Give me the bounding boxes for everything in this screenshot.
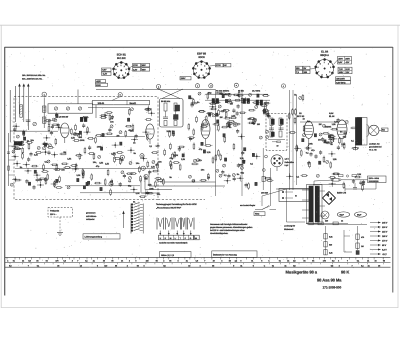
tube V1a FM triode side view [61,123,70,138]
transformer winding stubs left [302,189,309,191]
svg-text:10,7: 10,7 [268,115,271,118]
svg-text:1: 1 [324,61,325,64]
svg-text:2: 2 [204,64,205,67]
svg-text:8: 8 [195,68,196,71]
page scan edge bottom [1,307,398,309]
fuse row components group [329,173,366,192]
svg-text:220 V –: 220 V – [50,213,57,216]
tube socket U1 ECH 81 top view [113,61,131,78]
svg-text:98 Asa 98 Ma: 98 Asa 98 Ma [317,277,342,282]
IF can core pair 2 [243,99,246,104]
node D terminal circle [209,84,213,88]
audio preamp components group [237,93,274,189]
svg-text:100-320: 100-320 [261,192,269,195]
svg-text:5Ω: 5Ω [382,129,385,132]
svg-text:5: 5 [122,74,123,77]
svg-text:Ansicht von Seite Tastenknöpfe: Ansicht von Seite Tastenknöpfe [159,242,188,245]
svg-text:245V: 245V [339,71,344,74]
wire node1 down [43,98,45,129]
trimmer C2 [33,122,37,126]
svg-text:Fü 442 460kHz: Fü 442 460kHz [216,90,229,93]
svg-text:EL 84: EL 84 [329,115,335,118]
page scan edge right [397,25,399,308]
svg-text:EBF 89: EBF 89 [197,51,206,55]
svg-text:voltmeter: voltmeter [86,218,95,221]
svg-text:171-1099-500: 171-1099-500 [323,286,342,290]
power transformer T4 primary [309,186,313,222]
svg-text:10,7 MHz: 10,7 MHz [252,90,260,93]
voltage note dashed box [48,208,73,218]
power transformer T4 outline [307,185,323,224]
dropper resistor network group [306,220,365,256]
IF can core pair 1 [212,99,215,104]
node B terminal circle [118,93,122,97]
svg-text:Bf 455: Bf 455 [238,90,245,93]
chart header box left [160,252,192,258]
IF T1 core slug dark lower [174,115,179,120]
svg-text:6BQ5 A: 6BQ5 A [320,54,329,57]
svg-text:Prüfpunkt: Prüfpunkt [50,210,59,213]
svg-text:Tastenaggregat: Darstellung: Tastenaggregat: Darstellung Ru-Ta-St.-UK… [156,203,198,206]
svg-text:1,8V: 1,8V [133,68,138,71]
IF secondary components group [212,91,270,125]
long wire to power section [276,188,311,190]
svg-text:geschaltet bei: geschaltet bei [369,146,382,149]
wire vertical from bus x=78 [77,90,79,104]
tube V2 pentode side view [201,120,210,139]
electrolytic C50 [337,212,349,217]
coupling capacitor dark pair [80,117,83,121]
node 1 terminal circle [42,92,46,96]
IF can core pair 3 [256,100,259,105]
svg-text:Skalenseil: Skalenseil [284,228,294,231]
audio coupling components group [300,117,359,156]
svg-text:mit Röhren-: mit Röhren- [86,215,97,218]
node A terminal circle [156,85,160,89]
chart header box right [212,251,257,257]
T2 dashed box slug 1 [271,119,274,125]
bus wire y186 [65,185,140,187]
node G terminal circle [120,155,124,159]
bridge rectifier D1-D4 [323,192,330,199]
svg-text:85 V: 85 V [382,244,387,247]
pin voltage labels lower-left of U1 [96,80,108,87]
pin voltage labels right of U2 [216,64,231,68]
svg-text:245 V: 245 V [382,222,388,225]
wave band switch components group [10,166,62,190]
svg-text:9: 9 [197,64,198,67]
node N terminal circle [233,122,237,126]
capacitor C1 [26,119,31,121]
svg-text:7,3V: 7,3V [339,68,344,71]
pin voltage labels left of U1 [102,68,112,76]
node M terminal circle [226,122,230,126]
T2 dashed box slug 2 [280,119,283,125]
svg-text:150...350 kHz Ant. 5fts. Nu.: 150...350 kHz Ant. 5fts. Nu. [22,74,46,77]
nested corner wire 1 [141,178,160,193]
svg-text:105-04: 105-04 [98,102,105,105]
svg-text:170V: 170V [133,64,138,67]
wire U1 to labels [129,66,133,68]
svg-text:B250 C75: B250 C75 [337,192,347,195]
long wire y182 [160,181,216,183]
AGC network components group [188,128,240,183]
IF amplifier components group [104,152,164,197]
IF box lower components group [158,130,186,186]
node C terminal circle [195,84,199,88]
wire power bottom bus [309,224,367,226]
dashed tuner enclosure box [14,97,158,200]
phase splitter components group [318,123,338,146]
tube socket U2 EBF 89 top view [192,61,210,79]
svg-text:2M: 2M [319,123,322,126]
svg-text:0,3V: 0,3V [346,68,351,71]
svg-text:9,5W: 9,5W [329,112,333,115]
svg-text:7: 7 [318,71,319,74]
resistor R21 dark [14,142,22,146]
key strip long box [159,235,194,240]
svg-text:230V: 230V [181,77,186,80]
antenna lead arrow 1 [19,87,21,115]
node E terminal circle [234,83,238,87]
ratio detector transformer T2 dashed box with coils [266,114,287,151]
center bus wire y94 [205,93,268,95]
mixer stage components group [100,106,161,154]
wire U2 to labels [210,65,216,68]
node K terminal circle [109,182,113,186]
svg-text:2M: 2M [116,134,119,137]
bus wire above parts row [15,168,155,170]
svg-text:13-22 nF: 13-22 nF [14,148,22,151]
svg-text:510...1620 kHz Ant. Nu.: 510...1620 kHz Ant. Nu. [22,78,43,81]
speaker label box [382,128,389,131]
svg-text:-1,2V: -1,2V [102,73,107,76]
output transformer T3 core [356,118,362,146]
svg-text:6: 6 [322,73,323,76]
wire y136 mid [100,136,145,138]
page scan edge left [0,25,2,308]
svg-text:2M: 2M [257,123,260,126]
svg-text:8: 8 [115,68,116,71]
svg-text:gegen Masse gemessen. Abweich: gegen Masse gemessen. Abweichungen gelte… [210,226,253,229]
svg-text:6,3 V: 6,3 V [382,249,387,252]
svg-text:3: 3 [330,66,331,69]
node F terminal circle [281,84,285,88]
wire below dial box [88,107,130,109]
feedback network components group [306,149,340,177]
svg-text:98 K: 98 K [341,269,349,274]
chart middle line [5,262,391,264]
pin voltage labels left of U3 [296,66,311,74]
schematic border frame top [5,46,393,48]
antenna lead plain 2 [15,86,17,122]
pushbutton keys pictogram [157,218,194,236]
wire node A to dial box diagonal [112,97,120,100]
coil L2 on node1 lead [43,117,46,123]
svg-text:-11 V: -11 V [382,253,387,256]
svg-text:185 V: 185 V [382,235,388,238]
antenna lead arrow 3 [27,87,29,131]
tuning gang box [48,104,93,113]
schematic border frame left [4,47,6,296]
svg-text:Meßwerte in V an Fassung: Meßwerte in V an Fassung [213,254,238,257]
svg-text:250V: 250V [338,57,343,60]
svg-text:2M: 2M [63,151,66,154]
svg-text:2: 2 [328,62,329,65]
loudspeaker LS1 [369,125,379,135]
svg-text:bei 220 V~ und Unterbrechunge: bei 220 V~ und Unterbrechungen ohne [210,229,245,232]
power area small parts [339,175,344,177]
svg-text:Bandf.: Bandf. [130,102,137,105]
svg-text:2: 2 [124,65,125,68]
svg-text:7: 7 [116,72,117,75]
wire selector down [375,183,377,190]
pilot lamp LA1 [321,211,329,219]
long bus wire upper [96,89,216,91]
tube V3 triode side view [304,121,313,138]
svg-text:4,5 MHz Bf: 4,5 MHz Bf [59,116,69,119]
svg-text:3: 3 [206,68,207,71]
ratio detector tube socket [271,155,283,167]
svg-text:6: 6 [119,74,120,77]
svg-text:9: 9 [320,62,321,65]
oscillator components group [59,145,104,190]
svg-text:1: 1 [201,63,202,66]
ground terminal [57,232,63,234]
svg-text:6U1 BK: 6U1 BK [117,57,126,60]
T2 resistor internal [277,141,281,143]
IF T1 core slug dark upper [175,105,180,111]
wire fuse to selector [352,179,368,181]
nested corner wire 2 [145,175,172,190]
output transformer T3 frame [356,118,368,146]
measurement note paragraph [210,223,253,235]
svg-text:Gemessen mit Durchgis Röhrenv: Gemessen mit Durchgis Röhrenvoltmeter [210,223,248,226]
svg-text:215 V: 215 V [382,231,388,234]
T2 left column parts [262,148,264,190]
svg-text:TA u. TB: TA u. TB [369,149,377,152]
left rail wire [8,133,10,186]
pin voltage labels right of U1 [133,64,150,72]
svg-text:6,3V 50Hz: 6,3V 50Hz [336,81,346,84]
node H terminal circle [140,154,144,158]
band selector switch contact column [131,201,143,234]
wire vertical x=96 [95,105,97,118]
center bus wire y100 [205,99,270,101]
svg-text:8: 8 [318,66,319,69]
svg-text:5: 5 [326,73,327,76]
svg-text:7: 7 [196,71,197,74]
antenna lead plain 1 [9,90,11,142]
svg-text:110/125/220: 110/125/220 [369,180,380,183]
svg-text:3: 3 [126,68,127,71]
wire U3 to labels [334,60,338,65]
antenna coupling parts [13,123,35,143]
tube V1 triode side view [146,124,154,139]
svg-text:195-205V: 195-205V [336,77,345,80]
svg-text:230 V: 230 V [382,226,388,229]
svg-text:6: 6 [199,74,200,77]
chart top line [5,256,391,258]
scan speckle noise [6,48,392,268]
bus wire y193 [80,192,140,194]
detector stage components group [188,91,241,131]
wire power top [313,184,345,186]
long bus wire x=242 vertical [241,90,243,197]
chart cell value texts [7,260,386,268]
trimmer in gang 2 [66,107,69,110]
svg-text:Abschirmkäppchen.: Abschirmkäppchen. [210,232,229,235]
dashed enclosure bottom extension [158,199,205,201]
trimmer in gang 3 [78,107,81,110]
wire audio row [300,121,336,123]
svg-text:2M: 2M [220,116,223,119]
right bus components group [286,94,308,180]
schematic border frame right [392,47,394,293]
svg-text:-8,5V: -8,5V [96,80,101,83]
mains terminal box [279,189,309,202]
wire transformer to fuse [313,181,315,186]
chart column tick marks [7,257,384,264]
oscillator parts right of V1a [71,116,103,143]
pin voltage label left of U2 [180,77,191,81]
nested corner wire 3 [149,172,225,186]
switch pointer arrow [123,212,125,228]
svg-text:am Lautst.-Regler: am Lautst.-Regler [240,204,256,207]
service note box [83,234,120,239]
svg-text:Lochung für: Lochung für [284,225,295,228]
svg-text:1: 1 [121,64,122,67]
page scan edge top [0,24,400,26]
svg-text:220V~ 50Hz: 220V~ 50Hz [369,177,380,180]
crossing wires above T1 [157,89,180,99]
left rail capacitor [7,151,10,153]
FM tuner left parts column [43,112,62,145]
mains voltage selector box [368,176,387,183]
svg-text:Lieferungsumfang: Lieferungsumfang [85,236,103,239]
svg-text:12V: 12V [346,71,350,74]
mains terminal contacts [282,191,284,193]
svg-text:0,9V: 0,9V [102,69,107,72]
pin voltage labels below-right of U3 [336,77,351,85]
wire switch up [261,196,263,206]
pin voltage labels right of U3 [338,57,353,75]
tuner input components group (coils, trimmers) [12,141,59,171]
mains switch S2 [255,209,262,211]
node J terminal circle [141,166,145,170]
IF transformer T1 box with coils and capacitors [160,99,184,128]
svg-text:6DC8: 6DC8 [198,56,205,59]
fuse F1 [333,179,339,182]
svg-text:5,4V: 5,4V [338,61,343,64]
wire antenna link [10,130,27,132]
left rail resistor [8,166,10,170]
svg-text:248V: 248V [345,57,350,60]
capacitor across mains [354,183,356,188]
svg-text:215V: 215V [96,84,101,87]
power transformer T4 secondary [315,186,319,222]
svg-text:„Phono/Gramo NICHT Phl“: „Phono/Gramo NICHT Phl“ [156,206,181,209]
svg-text:EL 84: EL 84 [321,49,328,53]
tube V4 EL84 side view [337,120,347,139]
voltage tap arrow list [370,222,388,257]
node L terminal circle [78,133,82,137]
node P terminal circle [144,174,148,178]
svg-text:5: 5 [203,74,204,77]
mains switch label box [254,212,265,216]
long bus wire x=215 vertical [215,90,217,197]
vertical wire switch to transformer [286,189,288,222]
wire U3 to left labels [310,68,316,71]
svg-text:1M: 1M [361,245,364,248]
svg-text:4: 4 [125,72,126,75]
dashed lead down [59,217,61,232]
svg-text:9: 9 [117,65,118,68]
svg-text:Röhre | 1 | 2 | 3: Röhre | 1 | 2 | 3 [161,254,175,257]
svg-text:4: 4 [206,71,207,74]
svg-text:170 V: 170 V [382,240,388,243]
svg-text:170V: 170V [216,64,221,67]
chart bottom line [5,266,391,268]
svg-text:Musikgeräte 98 a: Musikgeräte 98 a [286,269,318,274]
coil L3 hatched [20,105,23,117]
electrolytic C51 [355,212,367,217]
svg-text:Lautspr. 4Ω: Lautspr. 4Ω [369,143,380,146]
dial drive box 105-04 [93,100,150,104]
svg-text:ECH 81: ECH 81 [117,52,127,56]
T2 internal caps [269,127,274,129]
T2 dashed box slug 3 [271,132,274,137]
svg-text:4: 4 [329,71,330,74]
antenna lead arrow 2 [23,87,25,123]
tube socket U3 EL 84 top view [315,58,335,78]
transformer winding stubs right [319,190,325,192]
wire switch column vertical [270,168,272,206]
trimmer in gang 1 [54,107,57,110]
vertical wires right of center [289,90,291,190]
svg-text:-11V: -11V [345,61,350,64]
svg-text:Bf 460 kHz: Bf 460 kHz [161,100,170,103]
wire y131 left [15,130,58,132]
coil L1 on node1 lead [43,106,46,112]
